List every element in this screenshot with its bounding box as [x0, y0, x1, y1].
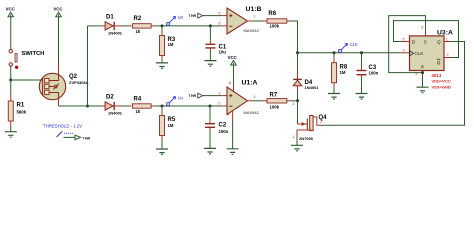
capacitor C3 100n: [357, 65, 379, 78]
svg-text:4013: 4013: [432, 73, 442, 78]
wire THR terminal to U1:A pin 3: [203, 95, 222, 97]
wire R3 to ground: [161, 61, 163, 63]
wire U1:B output to R6: [253, 20, 263, 22]
svg-text:1M: 1M: [168, 123, 174, 128]
wire C3 to ground: [361, 78, 363, 93]
svg-text:100n: 100n: [369, 71, 379, 76]
wire D4 to R7 node: [297, 93, 299, 101]
wire node B to R3: [161, 26, 163, 31]
wire Q4 drain to U3:A Q: [321, 42, 465, 126]
wire Q2 drain to node A: [59, 105, 88, 107]
svg-text:MAX942: MAX942: [244, 28, 260, 33]
svg-text:THRESHOLD - 1.2V: THRESHOLD - 1.2V: [43, 123, 82, 128]
op-amp U1:A MAX942: [218, 80, 259, 122]
svg-text:ZVP3306A: ZVP3306A: [69, 80, 89, 85]
ground under Q4: [291, 145, 303, 151]
svg-text:U1:A: U1:A: [242, 80, 258, 87]
marker THR tap (pencil + arrow): [57, 131, 91, 140]
wire R6 to CLK bus corner: [292, 21, 298, 53]
svg-text:CLK: CLK: [350, 42, 358, 47]
svg-text:1k: 1k: [136, 109, 141, 114]
wire node F to R5: [161, 106, 163, 111]
voltage probe CLK: [339, 42, 358, 52]
wire R1 to ground: [10, 127, 12, 132]
wire R2 to node B: [156, 25, 163, 27]
wire switch to node: [10, 66, 12, 80]
resistor R4 1k: [127, 96, 156, 114]
node H (R8 tap on CLK bus): [333, 51, 336, 54]
svg-text:1N4001: 1N4001: [108, 30, 123, 35]
svg-text:D2: D2: [106, 95, 114, 101]
node F (R4/R5 row): [161, 105, 164, 108]
svg-text:100k: 100k: [270, 24, 280, 29]
wire node to Q2 gate: [11, 79, 40, 81]
node J (S/R/ground join): [421, 71, 424, 74]
svg-text:THR: THR: [189, 14, 197, 18]
svg-text:1M: 1M: [340, 70, 346, 75]
node D (R6/D4/CLK bus): [296, 51, 299, 54]
wire Q4 source to ground: [296, 136, 298, 145]
svg-text:1N4001: 1N4001: [305, 85, 320, 90]
voltage probe Va: [167, 95, 184, 105]
wire node H to R8: [333, 53, 335, 58]
ground under R3: [156, 63, 168, 69]
svg-text:R: R: [421, 65, 424, 70]
svg-text:R6: R6: [268, 11, 276, 17]
svg-text:D1: D1: [106, 14, 114, 20]
svg-text:560k: 560k: [17, 109, 27, 114]
svg-text:Q: Q: [437, 40, 441, 45]
wire node F to C2 node: [162, 105, 210, 107]
wire VCC3 to U1:A pin 8: [233, 65, 235, 85]
node G (C2 tap): [209, 105, 212, 108]
wire node G to U1:A pin 2: [210, 105, 222, 107]
resistor R7 100k: [263, 93, 292, 110]
resistor R8 1M: [332, 58, 348, 88]
wire C2 to ground: [209, 131, 211, 149]
transistor Q4 2N7000 (N-MOSFET): [293, 115, 328, 141]
ground under R8: [328, 94, 340, 100]
switch SWITCH (SPST open): [9, 50, 44, 70]
svg-text:CLK: CLK: [415, 51, 425, 56]
power VCC symbol 3 (U1:A pin 8): [228, 55, 237, 65]
wire U1:A output to R7: [253, 100, 263, 102]
wire top row to D1: [88, 25, 101, 27]
wire VCC2 to Q2 source: [58, 17, 60, 63]
wire node A up to top row: [87, 26, 89, 106]
capacitor C1 10u: [205, 41, 226, 55]
resistor R5 1M: [160, 111, 176, 141]
svg-text:Q2: Q2: [69, 74, 78, 80]
ground under C3: [356, 94, 368, 100]
wire D2 to R4: [122, 105, 128, 107]
svg-text:U1:B: U1:B: [246, 6, 262, 13]
wire U1:A pin 4 to ground: [232, 122, 234, 149]
node I (C3 tap on CLK bus): [360, 51, 363, 54]
transistor Q2 ZVP3306A (P-MOSFET): [39, 63, 88, 106]
svg-text:R1: R1: [17, 103, 25, 109]
svg-text:2N7000: 2N7000: [299, 136, 314, 141]
wire node B to C1 node: [162, 25, 210, 27]
svg-text:THR: THR: [189, 94, 197, 98]
power VCC symbol 2 (above Q2): [53, 7, 62, 17]
svg-text:1k: 1k: [136, 29, 141, 34]
svg-text:MAX942: MAX942: [244, 110, 260, 115]
svg-text:VCC: VCC: [53, 7, 62, 12]
resistor R3 1M: [160, 31, 176, 61]
flip-flop U3:A 4013: [402, 24, 453, 89]
wire S pin loop to R pin (tied to ground): [389, 16, 426, 73]
wire node G down to C2: [209, 106, 211, 120]
svg-text:THR: THR: [83, 136, 91, 140]
ground under C2: [204, 148, 216, 154]
svg-text:10u: 10u: [219, 50, 227, 55]
svg-text:SWITCH: SWITCH: [22, 51, 45, 57]
svg-text:Vb: Vb: [178, 15, 184, 20]
node at switch/R1/Q2 gate: [9, 79, 12, 82]
wire CLK bus: [298, 52, 403, 54]
ground under C1: [204, 61, 216, 67]
svg-text:R4: R4: [134, 96, 142, 102]
resistor R1 560k: [8, 96, 26, 127]
wire node C down to C1: [209, 26, 211, 41]
ground under U3:A: [417, 87, 429, 93]
node B (R2/R3/C1 row): [161, 24, 164, 27]
svg-text:S: S: [424, 40, 427, 45]
wire R4 to node F: [156, 105, 163, 107]
op-amp U1:B MAX942: [218, 6, 261, 34]
svg-text:C2: C2: [219, 123, 227, 129]
diode D4 1N4001 (vertical): [293, 53, 319, 93]
svg-text:R7: R7: [270, 93, 278, 99]
power VCC symbol 1 (top left): [6, 7, 15, 17]
wire node A to D2: [88, 105, 101, 107]
svg-text:100n: 100n: [219, 129, 229, 134]
wire C1 to ground: [209, 52, 211, 61]
wire node I to C3: [361, 53, 363, 67]
ground under R1: [5, 132, 17, 138]
svg-text:VDD=VCC: VDD=VCC: [432, 79, 451, 84]
svg-text:Va: Va: [178, 95, 184, 100]
terminal THR (middle): [189, 93, 203, 98]
svg-text:Q: Q: [437, 60, 441, 65]
wire node C to U1:B pin 6: [210, 25, 222, 27]
svg-text:VCC: VCC: [6, 7, 15, 12]
diode D1 1N4001: [101, 14, 123, 35]
wire R8 to ground: [333, 88, 335, 94]
resistor R2 1k: [127, 16, 156, 34]
svg-text:VSS=GND: VSS=GND: [432, 85, 451, 90]
svg-text:1M: 1M: [168, 42, 174, 47]
wire R7 to node E: [292, 100, 298, 102]
diode D2 1N4001: [101, 95, 123, 116]
ground under R5: [156, 149, 168, 155]
wire THR terminal to U1:B pin 5: [203, 15, 222, 17]
wire node E down to Q4 gate: [297, 101, 299, 124]
terminal THR (upper): [189, 13, 203, 18]
wire node to R1: [10, 80, 12, 96]
svg-text:U3:A: U3:A: [437, 30, 453, 37]
wire Q-bar to D feedback loop: [394, 21, 459, 58]
wire R pin to ground: [422, 78, 424, 88]
voltage probe Vb: [167, 15, 184, 25]
wire D1 to R2: [122, 25, 128, 27]
svg-text:VCC: VCC: [228, 55, 237, 60]
wire R5 to ground: [161, 141, 163, 150]
svg-text:100k: 100k: [270, 105, 280, 110]
capacitor C2 100n: [205, 120, 229, 134]
node A (Q2 drain / D1 / D2): [86, 105, 89, 108]
node C (C1 tap): [209, 24, 212, 27]
ground under U1:A: [227, 149, 239, 155]
resistor R6 100k: [263, 11, 292, 29]
node E (R7/D4/Q4 gate): [296, 99, 299, 102]
svg-text:1N4001: 1N4001: [108, 110, 123, 115]
svg-text:R2: R2: [134, 16, 142, 22]
wire VCC1 to switch: [10, 17, 12, 49]
